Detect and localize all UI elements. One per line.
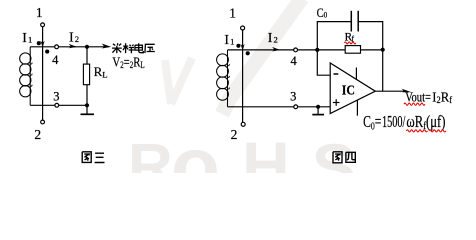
svg-text:3: 3 — [53, 90, 59, 104]
wire C0 branch — [317, 22, 382, 50]
caption figure 4 — [333, 152, 355, 163]
svg-text:3: 3 — [290, 90, 296, 104]
label Rf — [345, 32, 355, 44]
svg-text:o: o — [171, 121, 220, 173]
terminal 1 circle — [41, 23, 45, 27]
resistor RL — [83, 64, 89, 85]
label I2 right — [268, 31, 278, 46]
label I2 — [69, 30, 79, 45]
terminal 3 circle right — [294, 105, 298, 109]
cai — [112, 43, 122, 53]
arrow to sampling voltage — [101, 43, 111, 48]
inductor right secondary — [217, 50, 230, 107]
label 4 right — [290, 54, 297, 68]
svg-text:1: 1 — [36, 5, 43, 20]
power pin top — [355, 68, 357, 80]
label 3 right — [290, 90, 296, 104]
transformer polarity dot primary — [37, 41, 41, 45]
svg-text:R: R — [94, 64, 103, 79]
watermark diagonal band — [222, 0, 302, 114]
wire bottom horizontal right node3 — [228, 106, 331, 108]
squiggle under omega-Rf-uf — [406, 130, 445, 132]
svg-text:IC: IC — [342, 83, 355, 98]
junction ground node right — [316, 105, 320, 109]
terminal 3 circle — [55, 103, 59, 107]
op-amp minus sign — [334, 73, 339, 75]
junction node RL top — [85, 45, 89, 49]
power pin bottom — [356, 100, 358, 116]
label I1 — [22, 31, 32, 46]
transformer polarity dot secondary — [45, 50, 49, 54]
svg-text:I: I — [69, 30, 74, 45]
ya — [145, 44, 155, 53]
op-amp U1 triangle — [330, 63, 375, 114]
inductor L (secondary winding) — [20, 47, 32, 106]
label 4 — [52, 53, 59, 67]
resistor Rf — [345, 46, 360, 54]
wire inverting input — [317, 50, 330, 75]
svg-text:I: I — [224, 33, 229, 48]
wire Rf branch left — [317, 49, 345, 51]
ground right — [312, 107, 324, 115]
svg-text:2: 2 — [75, 34, 79, 44]
label 2 — [34, 127, 41, 142]
wire output — [375, 90, 403, 92]
wire top horizontal node4 — [30, 46, 104, 48]
svg-text:V2=2RL: V2=2RL — [112, 55, 144, 70]
arrow output — [400, 89, 411, 93]
svg-text:1: 1 — [230, 37, 234, 47]
junction feedback node — [381, 48, 385, 52]
polarity dot primary right — [236, 44, 240, 48]
svg-text:2: 2 — [231, 127, 238, 142]
terminal 2 circle right — [241, 122, 245, 126]
terminal 4 circle — [55, 45, 59, 49]
op-amp IC label — [342, 83, 355, 98]
svg-text:4: 4 — [290, 54, 297, 68]
label RL — [94, 64, 108, 80]
wire feedback vertical — [382, 50, 384, 91]
wire RL bottom lead — [86, 85, 88, 106]
junction input node — [315, 48, 319, 52]
svg-text:2: 2 — [274, 35, 278, 45]
label caiyang dianya (sampling voltage) — [112, 43, 155, 53]
dian — [135, 43, 143, 52]
arrow I1 down on primary — [41, 41, 45, 47]
wire Rf branch right — [361, 49, 383, 51]
wire top horizontal right — [228, 49, 318, 51]
wire RL top lead — [86, 47, 88, 64]
caption figure 3 — [82, 152, 104, 163]
junction node ground left — [85, 103, 89, 107]
label I1 right — [224, 33, 234, 48]
wire primary vertical 1-2 — [42, 27, 44, 120]
svg-text:ωRf(μf): ωRf(μf) — [406, 112, 445, 132]
label Vout formula — [405, 89, 452, 105]
wire bottom horizontal node3 — [30, 104, 87, 106]
arrow I2 right — [68, 44, 77, 49]
label 1 right — [229, 6, 236, 21]
wire primary vertical right — [242, 30, 244, 122]
arrow I1 down right — [241, 44, 245, 50]
watermark leaf band — [165, 58, 192, 104]
squiggle under Vout — [404, 103, 425, 105]
svg-text:I2Rf: I2Rf — [432, 89, 452, 105]
label 3 — [53, 90, 59, 104]
capacitor C0 — [351, 11, 358, 32]
svg-text:1500/: 1500/ — [382, 112, 406, 131]
squiggle under Rf — [344, 42, 355, 44]
terminal 1 circle right — [241, 26, 245, 30]
svg-text:2: 2 — [34, 127, 41, 142]
svg-text:H: H — [242, 128, 290, 173]
polarity dot secondary right — [246, 51, 250, 55]
label C0 formula — [363, 112, 445, 133]
svg-text:Vout=: Vout= — [405, 89, 431, 104]
op-amp plus sign — [333, 99, 340, 106]
ground left — [81, 105, 95, 114]
yang — [123, 43, 134, 53]
svg-text:R: R — [128, 132, 173, 173]
svg-text:I: I — [22, 31, 27, 46]
terminal 2 circle — [41, 120, 45, 124]
svg-text:L: L — [102, 69, 107, 79]
arrow I2 right fig4 — [272, 47, 281, 52]
label C0 — [317, 6, 328, 20]
svg-text:1: 1 — [28, 35, 32, 45]
terminal 4 circle right — [294, 48, 298, 52]
svg-text:4: 4 — [52, 53, 59, 67]
label V2=2RL — [112, 55, 144, 70]
label 2 right — [231, 127, 238, 142]
svg-text:I: I — [268, 31, 273, 46]
label 1 (left terminal 1) — [36, 5, 43, 20]
watermark RoHS letters — [128, 121, 356, 210]
svg-text:1: 1 — [229, 6, 236, 21]
